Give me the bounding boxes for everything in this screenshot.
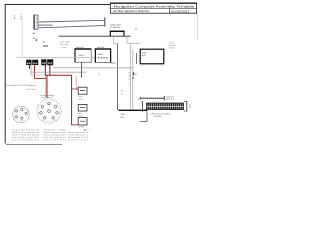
svg-text:relay 1: relay 1 <box>79 54 86 57</box>
wire A (purple, sloped) <box>39 20 105 22</box>
wire to box R <box>130 42 140 44</box>
big connector P2 label <box>40 94 54 99</box>
svg-text:P/N 8841: P/N 8841 <box>154 115 163 118</box>
unit S1 label <box>79 95 84 100</box>
wire vertical V1 <box>116 44 118 111</box>
terminal dot <box>81 76 82 77</box>
signal wire mid <box>53 67 133 69</box>
svg-text:01/15/2021: 01/15/2021 <box>171 9 190 13</box>
svg-text:pump: pump <box>79 114 84 117</box>
title block frame <box>110 3 197 13</box>
svg-text:bulletin 14-221: bulletin 14-221 <box>68 138 89 141</box>
red wire K3 down <box>44 65 46 75</box>
note text under-dash <box>60 41 70 49</box>
relay K4 <box>47 59 53 65</box>
notes block right <box>43 129 66 142</box>
svg-text:g: g <box>129 78 130 81</box>
wire C (purple, sloped) <box>39 26 105 28</box>
pink return wire <box>31 71 86 73</box>
connector J1 <box>34 15 39 29</box>
svg-text:fuse relay: fuse relay <box>60 43 69 46</box>
svg-text:5: 5 <box>21 120 22 123</box>
relay K3 <box>41 59 46 65</box>
svg-text:panel: panel <box>62 46 67 49</box>
bus wire (light) <box>16 57 95 59</box>
relay K2 <box>32 60 38 65</box>
heater pack bracket <box>184 101 190 111</box>
wire drop right jog <box>127 36 130 43</box>
svg-text:7: 7 <box>40 103 41 106</box>
svg-text:pump: pump <box>79 98 84 101</box>
heater pack tick <box>141 101 143 112</box>
svg-text:unit: unit <box>142 54 146 57</box>
svg-text:fused 15A: fused 15A <box>166 98 175 101</box>
wire vertical V2 <box>129 43 131 110</box>
supply wire +12V <box>140 96 164 101</box>
stub near box R <box>136 53 138 64</box>
TX module top bar <box>118 109 147 111</box>
border frame top <box>5 3 111 5</box>
svg-text:4: 4 <box>13 118 14 121</box>
relay box B1 <box>75 48 91 62</box>
svg-text:3: 3 <box>27 109 28 112</box>
fuse F1 <box>14 14 16 20</box>
fusible link FL1 label <box>110 24 121 29</box>
svg-text:2: 2 <box>21 106 22 109</box>
supply wire label <box>166 95 175 100</box>
big connector P2 pin numbers <box>38 101 60 122</box>
red feed horizontal <box>45 74 71 76</box>
svg-text:4: 4 <box>54 119 55 122</box>
svg-text:at the Alamo Room: at the Alamo Room <box>113 9 150 13</box>
border frame left <box>4 4 6 142</box>
svg-text:3: 3 <box>59 112 60 115</box>
border frame right (faint) <box>196 13 198 40</box>
svg-text:relay 2: relay 2 <box>98 53 105 56</box>
svg-text:1: 1 <box>14 107 15 110</box>
node E label <box>43 40 48 46</box>
wire B (stub) <box>39 24 53 26</box>
unit S2 label <box>79 112 84 117</box>
svg-text:1: 1 <box>46 101 47 104</box>
red wire down to big connector <box>45 75 47 97</box>
svg-text:to harness: to harness <box>26 88 35 91</box>
svg-text:--: -- <box>50 42 52 44</box>
svg-text:2: 2 <box>57 103 58 106</box>
wire from fuse F2 down <box>21 21 23 58</box>
box R (control unit) <box>140 49 164 64</box>
junction dot <box>132 77 134 79</box>
red stub K1 <box>29 65 31 69</box>
svg-text:FL 30A box: FL 30A box <box>110 26 121 29</box>
wire from relay box B1 down <box>80 62 82 77</box>
big connector P2 <box>37 99 61 123</box>
red wire to stacked units <box>72 124 78 126</box>
small connector P1 pin numbers <box>13 106 28 123</box>
TX wire down-left <box>140 111 147 121</box>
svg-text:W: W <box>129 74 131 77</box>
unit S3 <box>78 118 87 125</box>
svg-text:n: n <box>129 83 130 86</box>
gray wire down to big connector <box>46 75 48 98</box>
fusible link FL1 (staple) <box>110 31 125 36</box>
note text remote spare <box>169 42 177 50</box>
wire labels column <box>121 72 131 96</box>
wire vertical V3 <box>132 50 134 110</box>
svg-text:sender: sender <box>79 126 85 129</box>
fuse F2 <box>20 13 22 21</box>
heater pack label <box>151 113 170 119</box>
unit S2 <box>78 104 87 111</box>
svg-text:8: 8 <box>48 108 49 111</box>
pink branch wire <box>75 76 77 90</box>
relay box B2 <box>95 48 111 62</box>
node dot 2A <box>33 37 37 41</box>
TX module label <box>121 113 126 119</box>
border frame bottom <box>5 141 62 144</box>
junction tick <box>133 72 135 76</box>
unit S1 <box>72 87 87 94</box>
svg-text:Fuel pump circuit 4B diagram: Fuel pump circuit 4B diagram <box>6 84 36 87</box>
stub from relay box B2 <box>111 62 116 64</box>
svg-text:prior to final inspection: prior to final inspection <box>12 139 39 142</box>
red feed vertical <box>71 75 73 125</box>
wire drop left jog <box>114 36 118 43</box>
svg-text:then re-test feed: then re-test feed <box>43 139 65 142</box>
bus bar node <box>104 17 106 26</box>
svg-text:system: system <box>169 46 176 49</box>
svg-text:E: E <box>43 40 45 44</box>
small connector P1 <box>13 106 29 122</box>
svg-text:st: st <box>135 28 137 31</box>
red wire K2 down <box>33 65 35 79</box>
svg-text:6: 6 <box>38 112 39 115</box>
red wire K4 down <box>49 65 51 75</box>
notes block left <box>12 129 40 142</box>
svg-text:j: j <box>98 72 100 76</box>
relay K1 <box>26 60 31 65</box>
svg-text:5: 5 <box>42 119 43 122</box>
red bus horizontal <box>34 77 46 79</box>
svg-text:under dash: under dash <box>60 41 70 44</box>
svg-text:Hungarian Computer Assembly, T: Hungarian Computer Assembly, Template <box>114 4 195 8</box>
main horizontal wire <box>59 35 131 37</box>
heater pack body <box>146 103 183 110</box>
gray wire from K1 <box>31 65 48 75</box>
